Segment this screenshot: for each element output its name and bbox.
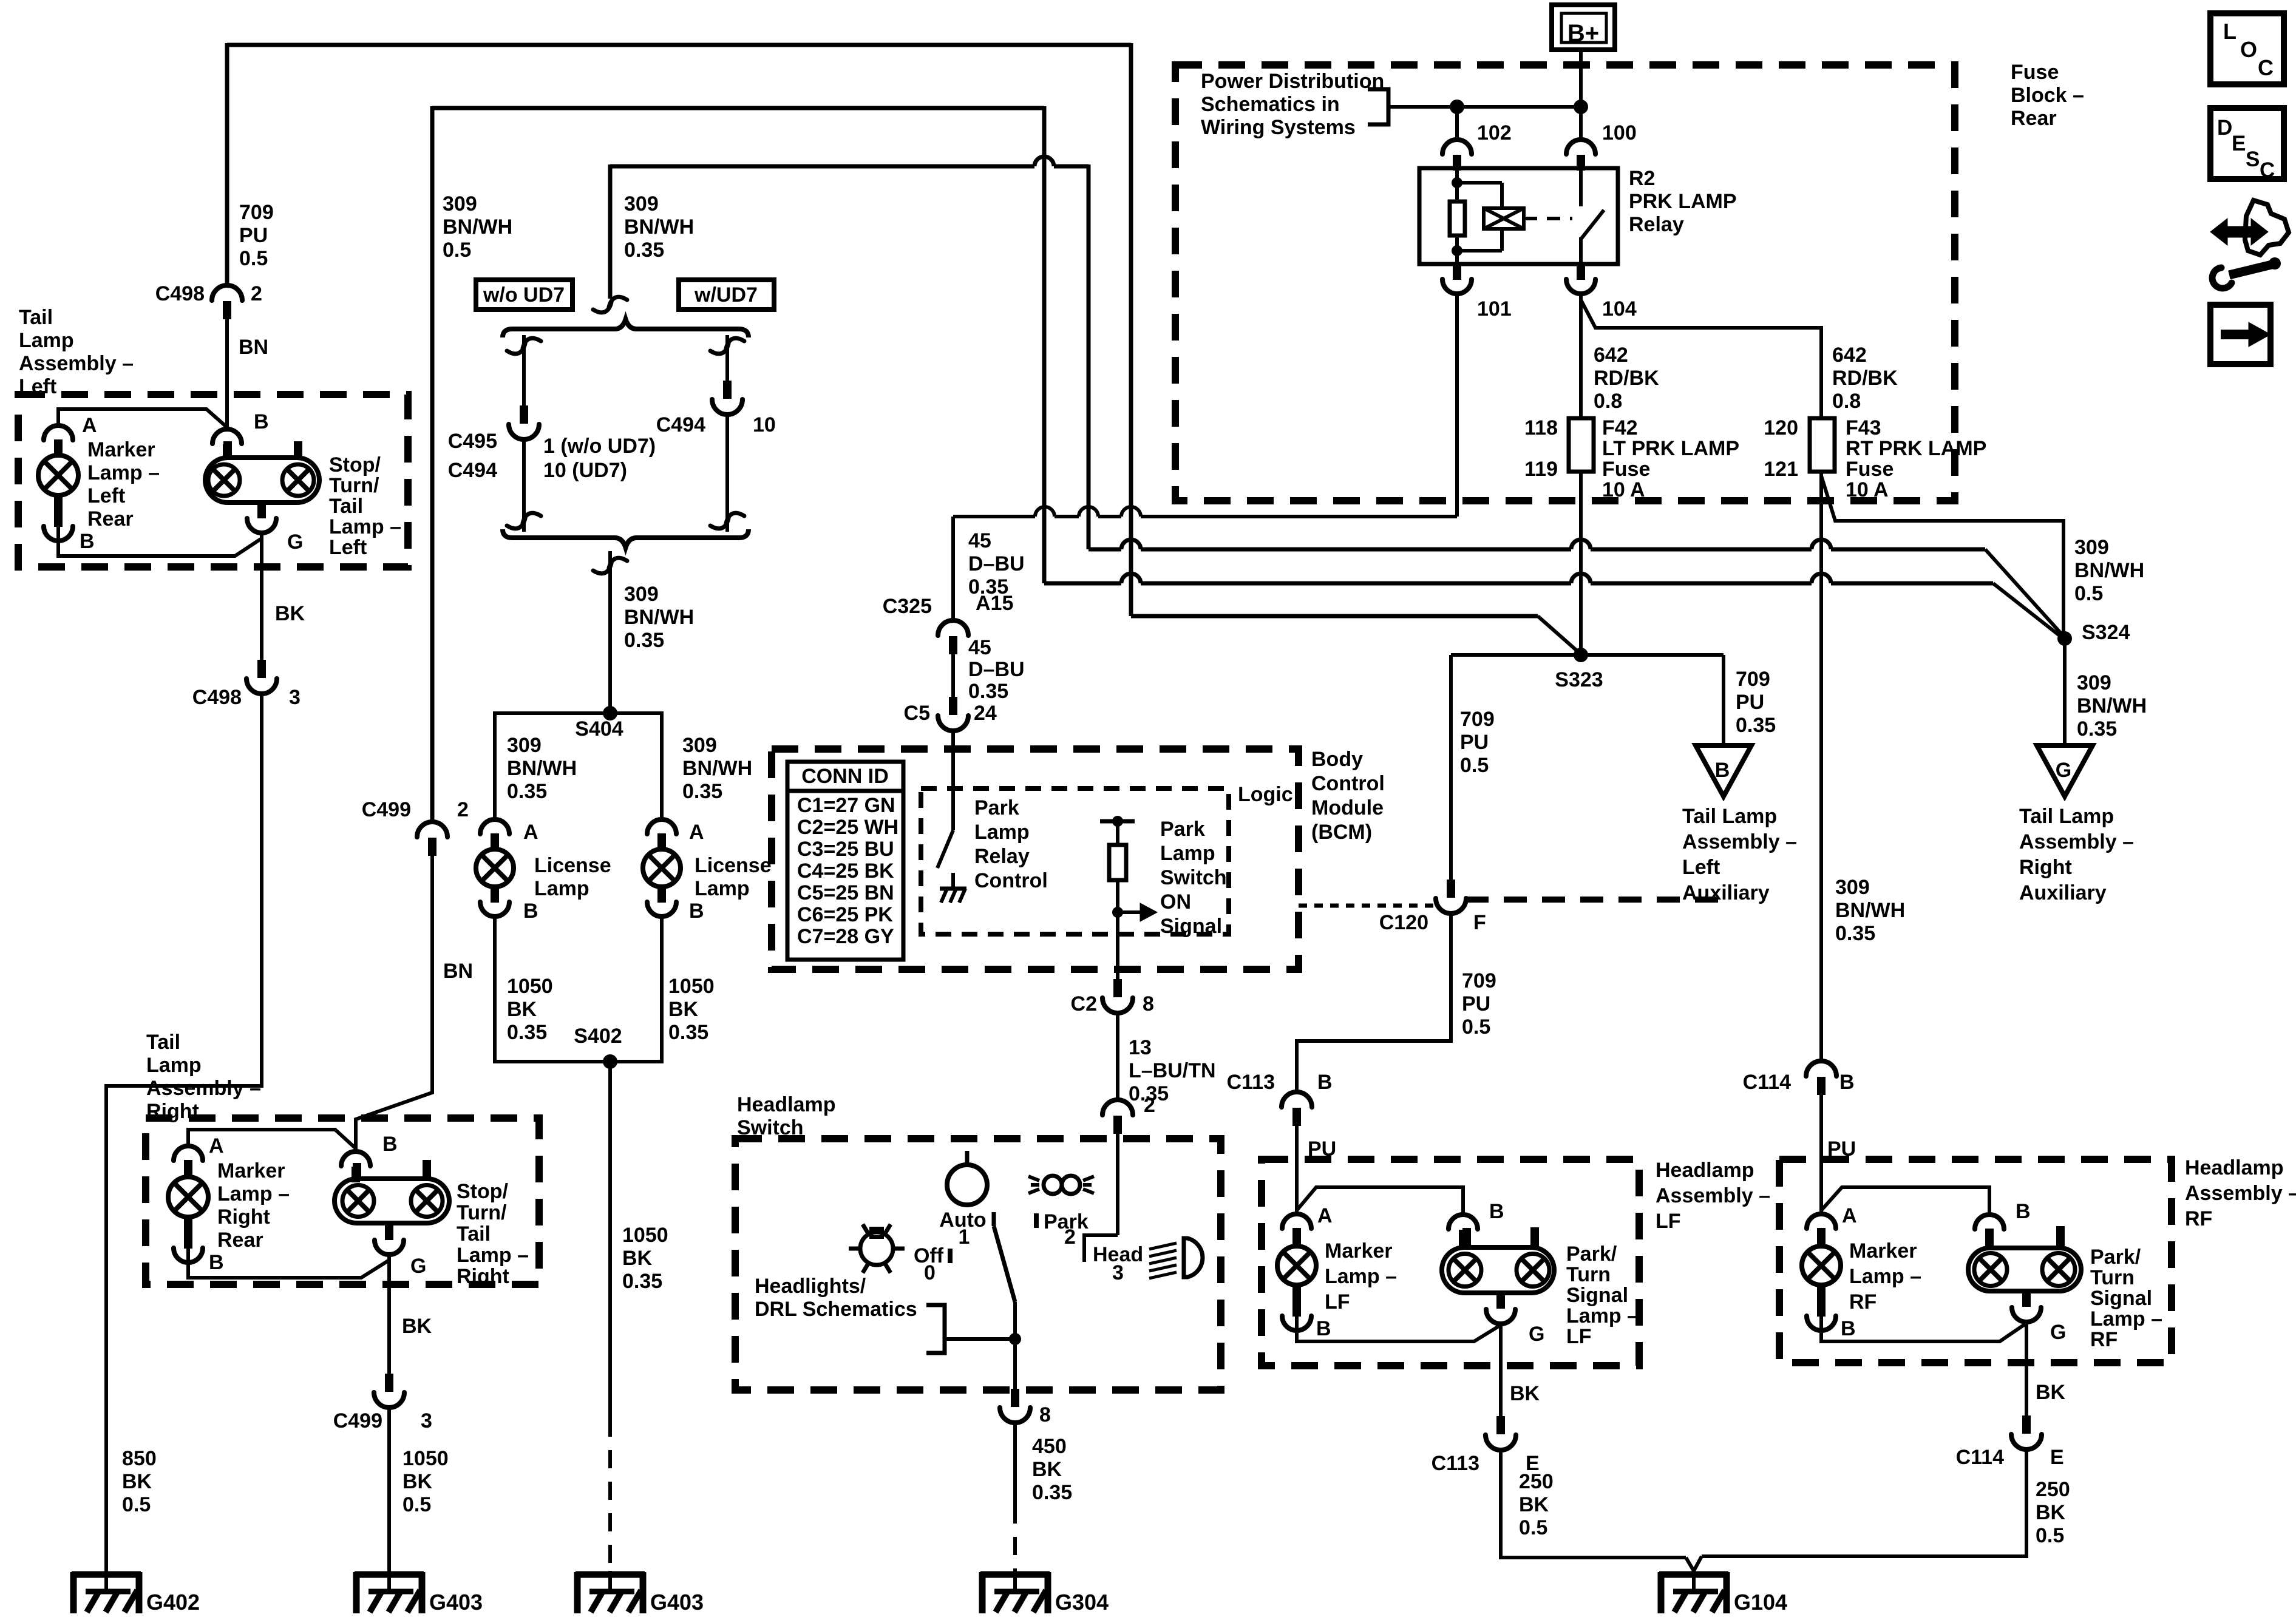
wire 709 PU top horizontal run — [227, 43, 1131, 47]
svg-text:Switch: Switch — [1160, 866, 1227, 889]
svg-text:Right: Right — [146, 1100, 199, 1123]
wire marker B RF to G node — [1821, 1315, 2026, 1341]
svg-text:CONN ID: CONN ID — [801, 765, 889, 788]
wire 309 BN/WH horizontal run col2 — [432, 106, 1044, 110]
fuse F42 LT PRK LAMP — [1569, 418, 1594, 472]
connector C113 pin B — [1282, 1092, 1312, 1107]
svg-text:C: C — [2258, 55, 2274, 80]
svg-text:Park: Park — [974, 796, 1019, 819]
svg-text:0.35: 0.35 — [968, 680, 1008, 703]
relay R2 PRK LAMP box — [1419, 168, 1618, 264]
headlamp switch blade — [992, 1212, 996, 1226]
svg-text:E: E — [2232, 132, 2246, 155]
pin B marker lamp RF bottom — [1817, 1301, 1826, 1317]
svg-text:C2: C2 — [1071, 992, 1097, 1015]
svg-text:0.35: 0.35 — [624, 629, 664, 652]
svg-text:BK: BK — [402, 1315, 432, 1338]
svg-text:0: 0 — [924, 1261, 936, 1284]
relay suppression diode branch — [1457, 181, 1502, 185]
svg-text:Headlamp: Headlamp — [2185, 1156, 2284, 1179]
relay pin 100 — [1566, 140, 1595, 154]
svg-text:Marker: Marker — [217, 1159, 285, 1182]
svg-text:0.5: 0.5 — [1462, 1015, 1490, 1039]
marker lamp RF bulb — [1802, 1246, 1841, 1285]
svg-text:250: 250 — [2036, 1478, 2070, 1501]
svg-text:PRK LAMP: PRK LAMP — [1629, 190, 1737, 213]
wire bus4 709 PU to S323 — [1131, 614, 1538, 619]
svg-text:w/UD7: w/UD7 — [694, 283, 758, 307]
svg-text:LT PRK LAMP: LT PRK LAMP — [1602, 437, 1739, 460]
fuse F43 RT PRK LAMP — [1810, 418, 1835, 472]
wire 309 BN/WH drop to UD7 split — [608, 164, 613, 299]
svg-text:120: 120 — [1764, 416, 1798, 439]
wire F42 output to S323 — [1579, 472, 1583, 656]
connector C120 pin F — [1447, 880, 1455, 898]
svg-text:C114: C114 — [1956, 1446, 2004, 1469]
connector C499 pin 2 — [417, 822, 447, 837]
svg-text:0.35: 0.35 — [507, 780, 547, 803]
wire into headlamp switch — [1116, 1133, 1119, 1235]
svg-text:B: B — [382, 1133, 398, 1156]
ground G402 — [104, 1571, 108, 1592]
svg-text:BN/WH: BN/WH — [2077, 694, 2147, 717]
svg-text:w/o UD7: w/o UD7 — [483, 283, 565, 307]
svg-text:B: B — [80, 530, 95, 553]
wire break UD7 right bottom — [710, 513, 744, 529]
svg-text:G: G — [287, 531, 303, 554]
wire LF ground run to G104 — [1501, 1450, 1686, 1558]
pin B license lamp left — [491, 887, 499, 903]
svg-text:C499: C499 — [333, 1409, 382, 1432]
svg-text:LF: LF — [1656, 1210, 1681, 1233]
svg-text:Schematics in: Schematics in — [1201, 93, 1340, 116]
svg-text:Rear: Rear — [87, 507, 134, 531]
svg-text:0.5: 0.5 — [402, 1493, 431, 1516]
dashed box Tail Lamp Assembly - Left — [18, 395, 408, 567]
svg-text:Relay: Relay — [974, 845, 1030, 868]
wire break above UD7 brace — [593, 297, 627, 313]
svg-text:B+: B+ — [1567, 20, 1599, 47]
dashed box Headlamp Assembly - RF — [1779, 1159, 2172, 1363]
splice S324 — [2057, 631, 2072, 646]
svg-text:309: 309 — [1835, 876, 1870, 899]
svg-text:Left: Left — [87, 484, 125, 507]
wire BN to tail lamp left — [225, 319, 229, 431]
relay pin 104 — [1577, 264, 1585, 280]
bracket power distribution reference — [1368, 89, 1388, 124]
svg-text:45: 45 — [968, 636, 991, 659]
svg-text:0.35: 0.35 — [668, 1021, 708, 1044]
switch park lamp relay control — [937, 830, 953, 868]
svg-text:10: 10 — [753, 413, 776, 436]
svg-text:Lamp: Lamp — [974, 821, 1030, 844]
svg-text:Control: Control — [1311, 772, 1385, 795]
pin A license lamp left — [480, 819, 509, 834]
svg-text:Lamp –: Lamp – — [1325, 1265, 1397, 1288]
ground G104 — [1692, 1571, 1696, 1592]
svg-text:119: 119 — [1524, 458, 1558, 481]
svg-text:BK: BK — [1510, 1382, 1540, 1405]
svg-text:3: 3 — [1112, 1261, 1124, 1284]
wire marker B to G node — [58, 526, 262, 556]
svg-text:13: 13 — [1129, 1036, 1152, 1059]
svg-text:S404: S404 — [575, 717, 623, 741]
svg-text:0.5: 0.5 — [2036, 1524, 2064, 1547]
svg-text:C5: C5 — [904, 702, 930, 725]
icon head position headlamp — [1184, 1238, 1203, 1277]
dashed box Logic — [921, 788, 1229, 934]
wire break UD7 right top — [710, 338, 744, 354]
svg-text:G104: G104 — [1734, 1590, 1787, 1615]
svg-text:Lamp: Lamp — [19, 329, 74, 352]
svg-text:709: 709 — [239, 201, 274, 224]
license lamp loop bottom rail — [495, 1060, 662, 1063]
svg-text:0.35: 0.35 — [507, 1021, 547, 1044]
arrow park lamp switch on signal — [1112, 907, 1123, 918]
svg-text:101: 101 — [1477, 297, 1512, 320]
svg-text:C1=27 GN: C1=27 GN — [797, 794, 895, 817]
ground internal BCM — [951, 873, 955, 889]
wire F43 output to S324 — [1821, 476, 2063, 637]
svg-text:0.35: 0.35 — [622, 1270, 662, 1293]
svg-text:642: 642 — [1594, 344, 1628, 367]
svg-text:BK: BK — [122, 1470, 152, 1493]
svg-text:Headlamp: Headlamp — [1656, 1159, 1754, 1182]
svg-text:Body: Body — [1311, 748, 1363, 771]
svg-text:Right: Right — [457, 1265, 509, 1288]
svg-text:309: 309 — [2077, 671, 2111, 694]
terminal triangle G tail lamp right auxiliary — [2037, 745, 2093, 796]
svg-text:Marker: Marker — [87, 438, 155, 461]
svg-text:Lamp –: Lamp – — [2090, 1307, 2162, 1331]
svg-text:C2=25 WH: C2=25 WH — [797, 816, 898, 839]
svg-text:C114: C114 — [1743, 1071, 1791, 1094]
wire break UD7 left bottom — [507, 513, 541, 529]
license lamp left drop — [493, 711, 497, 820]
headlamp switch common wire — [1013, 1302, 1017, 1391]
wire UD7 left branch lower — [522, 439, 526, 532]
svg-text:A: A — [1842, 1204, 1857, 1227]
svg-text:Tail: Tail — [19, 306, 53, 329]
svg-text:104: 104 — [1602, 297, 1637, 320]
wire RF ground run to G104 — [1702, 1448, 2026, 1556]
connector C2 pin 8 — [1113, 979, 1122, 997]
ground G403 right tail lamp — [387, 1571, 391, 1592]
svg-text:Signal: Signal — [1566, 1284, 1628, 1307]
svg-text:A15: A15 — [976, 592, 1013, 615]
resistor park lamp switch pullup — [1100, 819, 1135, 824]
svg-text:License: License — [695, 854, 772, 877]
bracket headlights DRL schematics — [946, 1337, 1015, 1341]
svg-text:Lamp –: Lamp – — [87, 461, 160, 484]
svg-text:0.5: 0.5 — [2074, 582, 2103, 605]
svg-text:Tail: Tail — [457, 1222, 491, 1246]
svg-text:D–BU: D–BU — [968, 658, 1025, 681]
svg-text:S: S — [2246, 147, 2260, 171]
svg-text:Auxiliary: Auxiliary — [2019, 881, 2107, 904]
svg-text:Stop/: Stop/ — [329, 453, 381, 476]
wire license right to S402 — [660, 916, 664, 1063]
pin B stop/turn lamp left — [212, 429, 242, 444]
svg-text:Lamp: Lamp — [534, 877, 589, 900]
svg-text:Marker: Marker — [1325, 1239, 1393, 1263]
pin A marker lamp left — [44, 425, 73, 440]
wire BK LF to C113 E — [1499, 1323, 1503, 1417]
wire relay 104 to fuses — [1579, 292, 1583, 419]
svg-text:Signal: Signal — [1160, 915, 1222, 938]
svg-text:B: B — [1316, 1317, 1331, 1340]
svg-text:Fuse: Fuse — [1846, 458, 1894, 481]
svg-text:PU: PU — [1462, 992, 1490, 1015]
legend icon DESC — [2210, 108, 2284, 179]
svg-text:A: A — [689, 821, 704, 844]
wire BK tail lamp left to C498-3 — [260, 533, 263, 660]
svg-text:1050: 1050 — [668, 975, 715, 998]
svg-text:0.8: 0.8 — [1832, 390, 1861, 413]
svg-text:B: B — [689, 900, 704, 923]
wire bus1 drop to C325 — [951, 517, 955, 620]
svg-text:Lamp: Lamp — [695, 877, 750, 900]
wire PU into RF assembly — [1819, 1094, 1823, 1215]
svg-text:Lamp –: Lamp – — [1849, 1265, 1921, 1288]
svg-text:BK: BK — [2036, 1381, 2066, 1404]
svg-text:2: 2 — [1064, 1225, 1076, 1249]
license lamp loop top rail — [495, 711, 662, 715]
pin B park/turn lamp RF — [1975, 1215, 2004, 1229]
svg-text:118: 118 — [1524, 416, 1558, 439]
svg-text:C495: C495 — [448, 430, 497, 453]
power feed B+ box — [1552, 5, 1615, 50]
svg-text:BK: BK — [622, 1247, 653, 1270]
svg-text:BK: BK — [1519, 1493, 1549, 1516]
svg-text:0.5: 0.5 — [122, 1493, 151, 1516]
connector C114 pin E — [2022, 1415, 2031, 1434]
svg-text:S324: S324 — [2082, 621, 2130, 644]
svg-text:Park: Park — [1160, 818, 1205, 841]
svg-text:Switch: Switch — [737, 1116, 804, 1139]
connector C499 pin 3 — [385, 1374, 393, 1392]
svg-text:8: 8 — [1039, 1403, 1051, 1426]
svg-text:C325: C325 — [883, 595, 932, 618]
license lamp right bulb — [643, 849, 681, 887]
svg-text:BN/WH: BN/WH — [1835, 899, 1905, 922]
svg-text:C499: C499 — [362, 798, 411, 821]
svg-text:C120: C120 — [1379, 911, 1428, 934]
wire branch to LF lamps — [1297, 1187, 1463, 1215]
pin A license lamp right — [647, 819, 676, 834]
svg-text:Turn/: Turn/ — [457, 1201, 507, 1224]
connector C495/C494 left branch — [520, 405, 528, 424]
svg-text:24: 24 — [974, 702, 997, 725]
icon park position lamps — [1044, 1176, 1062, 1194]
svg-text:G403: G403 — [650, 1590, 704, 1615]
svg-text:Lamp: Lamp — [146, 1054, 202, 1077]
svg-text:BK: BK — [1032, 1458, 1062, 1481]
pin B stop/turn lamp right — [341, 1151, 370, 1166]
svg-text:309: 309 — [507, 734, 542, 757]
svg-text:0.35: 0.35 — [2077, 717, 2117, 741]
wire break UD7 left top — [507, 338, 541, 354]
svg-text:BK: BK — [668, 998, 699, 1021]
svg-text:850: 850 — [122, 1447, 157, 1470]
svg-text:Wiring Systems: Wiring Systems — [1201, 116, 1356, 139]
wire 1050 BK 0.5 to ground G403 — [387, 1408, 391, 1576]
ground merge into G104 — [1686, 1556, 1702, 1571]
svg-text:0.5: 0.5 — [443, 239, 471, 262]
svg-text:D: D — [2217, 116, 2232, 140]
wire BK tail lamp right to C499-3 — [387, 1255, 391, 1374]
connector C5 pin 24 — [949, 697, 957, 715]
svg-text:Control: Control — [974, 869, 1048, 892]
svg-text:Park/: Park/ — [1566, 1242, 1617, 1266]
wire 850 BK to ground G402 — [106, 694, 262, 1576]
svg-text:Assembly –: Assembly – — [1682, 830, 1797, 853]
svg-text:Right: Right — [217, 1205, 270, 1229]
wire S323 branch to C120 — [1449, 655, 1453, 880]
dashed box Headlamp Assembly - LF — [1262, 1159, 1639, 1366]
dotted line BCM edge to C120 — [1299, 904, 1434, 908]
wire branch to marker lamp A — [58, 409, 227, 427]
svg-text:Tail: Tail — [146, 1031, 180, 1054]
svg-text:Lamp –: Lamp – — [1566, 1304, 1639, 1327]
svg-text:Headlights/: Headlights/ — [755, 1275, 866, 1298]
svg-text:BN/WH: BN/WH — [624, 215, 694, 239]
svg-text:Marker: Marker — [1849, 1239, 1917, 1263]
svg-text:G304: G304 — [1055, 1590, 1109, 1615]
svg-text:1: 1 — [959, 1225, 970, 1249]
relay coil branch — [1455, 168, 1459, 183]
splice S323 — [1574, 648, 1588, 662]
svg-text:Assembly –: Assembly – — [2019, 830, 2134, 853]
svg-text:A: A — [82, 414, 97, 437]
wire C2 to headlamp switch — [1116, 1013, 1119, 1100]
pin G park/turn lamp RF — [2012, 1307, 2041, 1322]
ground G304 — [1013, 1571, 1017, 1592]
svg-text:BK: BK — [2036, 1501, 2066, 1524]
box option w/o UD7 — [476, 280, 572, 310]
svg-text:C: C — [2260, 158, 2275, 182]
svg-text:C4=25 BK: C4=25 BK — [797, 859, 894, 883]
license lamp right drop — [660, 711, 664, 820]
wire UD7 right branch lower — [725, 415, 729, 532]
svg-text:B: B — [254, 410, 269, 433]
svg-text:709: 709 — [1460, 708, 1495, 731]
wire stub to relay 102 — [1455, 107, 1459, 141]
wire break below UD7 brace — [593, 558, 627, 574]
wire 309 BN/WH drop to C499 — [430, 106, 435, 822]
svg-text:Assembly –: Assembly – — [19, 352, 134, 375]
splice S404 — [603, 706, 617, 720]
dashed harness line right of C120 — [1466, 897, 1727, 903]
svg-text:309: 309 — [2074, 536, 2109, 559]
svg-text:C494: C494 — [448, 459, 497, 482]
wire to ground G304 dashed — [1013, 1423, 1017, 1505]
license lamp left bulb — [476, 849, 514, 887]
relay dashed mechanical link — [1524, 217, 1572, 220]
svg-text:L–BU/TN: L–BU/TN — [1129, 1059, 1216, 1082]
svg-text:LF: LF — [1325, 1290, 1350, 1314]
svg-text:RF: RF — [2090, 1328, 2118, 1351]
svg-text:Lamp: Lamp — [1160, 842, 1215, 865]
svg-text:450: 450 — [1032, 1435, 1067, 1458]
svg-text:S402: S402 — [574, 1025, 622, 1048]
pin A marker lamp RF — [1807, 1214, 1836, 1229]
svg-text:C3=25 BU: C3=25 BU — [797, 838, 894, 861]
wire S323 to left auxiliary branch — [1581, 653, 1724, 657]
svg-text:C5=25 BN: C5=25 BN — [797, 881, 894, 904]
svg-text:B: B — [209, 1251, 224, 1274]
svg-text:Tail: Tail — [329, 495, 363, 518]
svg-text:DRL Schematics: DRL Schematics — [755, 1298, 917, 1321]
svg-text:A: A — [523, 821, 538, 844]
svg-text:B: B — [1317, 1071, 1333, 1094]
wire marker B right to G node — [188, 1249, 389, 1278]
connector headlamp switch pin 8 — [1011, 1389, 1019, 1407]
wire dashed to ground G403 center — [608, 1419, 612, 1576]
svg-text:1050: 1050 — [402, 1447, 449, 1470]
brace UD7 split top — [503, 319, 749, 337]
connector C498 pin 3 — [257, 660, 266, 678]
svg-text:Tail Lamp: Tail Lamp — [1682, 805, 1777, 828]
legend icon adjust hand and wrench — [2210, 219, 2268, 245]
svg-text:0.5: 0.5 — [1460, 754, 1489, 777]
wire S324 to right auxiliary — [2063, 639, 2067, 745]
wire branch to marker lamp A right — [188, 1130, 356, 1148]
svg-text:Logic: Logic — [1238, 783, 1293, 806]
svg-text:0.35: 0.35 — [1835, 922, 1875, 945]
wire 309 BN/WH horizontal run col3 — [610, 157, 1089, 166]
svg-text:Lamp –: Lamp – — [457, 1244, 529, 1267]
svg-text:45: 45 — [968, 529, 991, 552]
svg-text:G: G — [2056, 759, 2071, 782]
svg-text:S323: S323 — [1555, 668, 1603, 691]
svg-text:B: B — [1839, 1071, 1855, 1094]
wire bus relay control to C325 — [953, 507, 1457, 517]
svg-text:F: F — [1473, 911, 1486, 934]
wire C120 to C113 — [1297, 914, 1451, 1093]
pin G park/turn lamp LF — [1486, 1309, 1515, 1324]
svg-text:100: 100 — [1602, 121, 1637, 144]
svg-text:F42: F42 — [1602, 416, 1638, 439]
svg-text:102: 102 — [1477, 121, 1512, 144]
svg-text:Right: Right — [2019, 856, 2072, 879]
svg-text:RD/BK: RD/BK — [1832, 367, 1898, 390]
svg-text:RF: RF — [1849, 1290, 1877, 1314]
svg-text:0.8: 0.8 — [1594, 390, 1622, 413]
wire col3 vertical to bus2 — [1087, 164, 1091, 549]
svg-text:Assembly –: Assembly – — [1656, 1184, 1770, 1207]
svg-text:Tail Lamp: Tail Lamp — [2019, 805, 2114, 828]
wire marker B LF to G node — [1297, 1315, 1501, 1341]
wire F43 output to C114 — [1819, 472, 1823, 1062]
park/turn signal lamp LF — [1442, 1247, 1554, 1293]
svg-text:RF: RF — [2185, 1207, 2212, 1230]
svg-text:C6=25 PK: C6=25 PK — [797, 903, 893, 926]
svg-text:1050: 1050 — [507, 975, 553, 998]
svg-text:Relay: Relay — [1629, 213, 1684, 236]
svg-text:Park/: Park/ — [2090, 1246, 2141, 1269]
svg-text:10 (UD7): 10 (UD7) — [543, 459, 627, 482]
svg-text:D–BU: D–BU — [968, 552, 1025, 575]
svg-text:309: 309 — [624, 192, 659, 215]
svg-text:Assembly –: Assembly – — [146, 1077, 261, 1100]
marker lamp - right rear bulb — [168, 1177, 208, 1217]
pin A marker lamp LF — [1282, 1214, 1311, 1229]
svg-text:BN: BN — [443, 960, 473, 983]
ground G403 license lamps — [608, 1571, 612, 1592]
wire from UD7 brace to S404 — [608, 551, 612, 713]
wire 709 PU drop to C498 — [225, 43, 229, 285]
